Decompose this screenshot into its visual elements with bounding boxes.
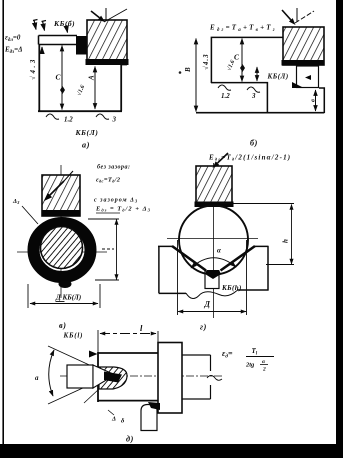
svg-text:в: в [310,99,317,102]
svg-text:√4.3: √4.3 [202,53,210,70]
svg-text:КБ(Л): КБ(Л) [267,73,289,81]
svg-text:2: 2 [262,367,266,373]
svg-text:без зазора:: без зазора: [97,164,131,171]
svg-text:h: h [282,239,290,243]
svg-text:Д КБ(Л): Д КБ(Л) [55,294,81,302]
svg-text:√4.3: √4.3 [29,57,37,80]
svg-text:а): а) [82,141,90,150]
svg-text:а: а [35,374,39,382]
svg-text:д): д) [126,435,134,444]
svg-text:Д: Д [204,300,211,309]
svg-text:с зазором Δ3: с зазором Δ3 [94,198,138,204]
svg-text:3: 3 [112,116,117,124]
svg-text:КБ(Л): КБ(Л) [75,128,99,137]
svg-text:2tg: 2tg [245,362,255,369]
svg-text:3: 3 [251,92,256,100]
svg-text:l: l [140,323,143,333]
svg-text:1.2: 1.2 [64,116,73,124]
svg-text:α: α [217,247,221,255]
svg-text:б): б) [250,139,258,148]
svg-text:г): г) [200,323,207,332]
svg-text:в): в) [59,321,67,330]
svg-text:КБ(б): КБ(б) [53,19,75,28]
svg-text:КБ(l): КБ(l) [63,332,84,340]
svg-text:А: А [88,75,96,81]
svg-text:В: В [184,67,192,73]
svg-text:Δ: Δ [111,416,116,423]
svg-text:1.2: 1.2 [221,92,230,100]
svg-text:КБ(h): КБ(h) [221,284,242,292]
svg-text:Едг=Тд/2(1/sinα/2-1): Едг=Тд/2(1/sinα/2-1) [208,154,291,162]
